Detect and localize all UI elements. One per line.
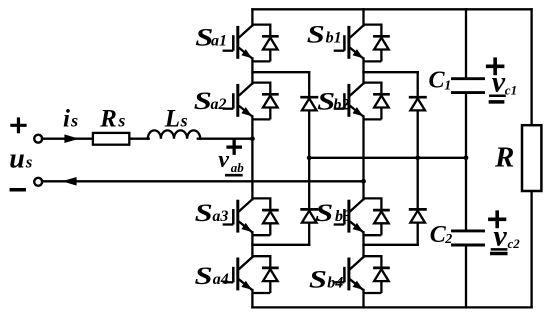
plus sign of source us: [12, 119, 25, 132]
svg-text:b4: b4: [327, 275, 343, 292]
antiparallel diode of Sa2: [252, 83, 278, 120]
label vc1: [492, 65, 517, 98]
plus sign of vc1: [488, 59, 503, 73]
current arrow is: [64, 134, 79, 143]
svg-text:b1: b1: [326, 30, 342, 47]
svg-text:S: S: [315, 199, 333, 227]
wire junction Sb1-Sb2 to clamp column: [364, 71, 418, 73]
svg-text:s: s: [25, 152, 33, 171]
label Sb1: [307, 21, 342, 49]
svg-text:c1: c1: [505, 82, 517, 97]
label Sa1: [195, 24, 227, 52]
wire phase-leg a vertical: [251, 9, 253, 307]
svg-text:v: v: [493, 220, 507, 253]
label Sb4: [309, 266, 343, 294]
svg-text:R: R: [494, 142, 514, 174]
label R load: [494, 142, 514, 174]
label C1: [429, 67, 452, 93]
wire clamp column a vertical: [308, 72, 310, 245]
label vc2: [493, 220, 520, 253]
return current arrow: [62, 177, 77, 186]
label us: [9, 143, 33, 174]
svg-text:2: 2: [444, 232, 452, 247]
antiparallel diode of Sb3: [364, 198, 390, 235]
svg-text:R: R: [99, 106, 117, 133]
antiparallel diode of Sa1: [252, 25, 278, 62]
IGBT Sb1: [334, 25, 364, 58]
wire junction Sa1-Sa2 to clamp column: [252, 71, 309, 73]
wire clamp column b vertical: [417, 72, 419, 245]
svg-text:L: L: [164, 106, 180, 133]
svg-text:a1: a1: [211, 33, 227, 50]
label Sa2: [194, 88, 227, 116]
node source - terminal: [34, 178, 42, 186]
wire upper source line: [42, 138, 253, 140]
IGBT Sa3: [223, 199, 253, 232]
resistor R (load): [522, 125, 541, 191]
underline of vc1: [490, 94, 504, 97]
antiparallel diode of Sa4: [252, 256, 278, 293]
svg-text:1: 1: [444, 78, 451, 93]
svg-text:S: S: [195, 263, 213, 291]
wire capacitor branch vertical: [465, 9, 467, 307]
antiparallel diode of Sb1: [364, 25, 390, 62]
svg-text:s: s: [70, 111, 78, 131]
plus sign of vab: [228, 141, 240, 153]
label Sa4: [195, 263, 229, 291]
label Rs: [99, 106, 125, 133]
antiparallel diode of Sb4: [364, 256, 390, 293]
svg-text:s: s: [117, 111, 125, 131]
label is: [63, 106, 78, 133]
IGBT Sa4: [223, 257, 253, 290]
svg-text:S: S: [194, 88, 212, 116]
svg-text:S: S: [195, 199, 213, 227]
clamping diode Db2 (lower clamp): [409, 209, 427, 222]
svg-text:c2: c2: [508, 236, 521, 251]
node phase b terminal: [361, 179, 366, 184]
node neutral junction at clamp b: [415, 155, 420, 160]
svg-text:ab: ab: [231, 160, 245, 175]
node neutral junction at capacitor midpoint: [464, 155, 469, 160]
node phase a terminal: [250, 136, 255, 141]
label Sb2: [317, 88, 349, 116]
IGBT Sa1: [223, 25, 253, 58]
clamping diode Da2 (lower clamp): [300, 209, 318, 222]
wire phase-leg b vertical: [362, 9, 364, 307]
capacitor C2: [453, 231, 484, 245]
svg-text:s: s: [180, 111, 188, 131]
svg-text:a2: a2: [211, 96, 227, 113]
resistor Rs: [93, 133, 129, 145]
svg-text:v: v: [492, 65, 506, 98]
label C2: [430, 222, 452, 248]
IGBT Sb3: [334, 199, 364, 232]
wire bottom DC bus: [252, 306, 531, 308]
clamping diode Db1 (upper clamp): [409, 97, 427, 110]
antiparallel diode of Sa3: [252, 198, 278, 235]
minus sign of vc1: [490, 100, 502, 104]
inductor Ls: [148, 130, 200, 138]
label Ls: [164, 106, 188, 133]
plus sign of vc2: [490, 212, 505, 226]
svg-text:a3: a3: [212, 208, 228, 225]
antiparallel diode of Sb2: [364, 83, 390, 120]
wire lower source line: [42, 180, 364, 182]
IGBT Sb4: [334, 257, 364, 290]
svg-text:v: v: [218, 147, 229, 173]
svg-text:i: i: [63, 106, 70, 133]
node source + terminal: [34, 135, 42, 143]
svg-text:u: u: [9, 143, 25, 174]
wire junction Sb3-Sb4 to clamp column: [364, 244, 418, 246]
svg-text:C: C: [429, 67, 446, 93]
underline of vc2: [492, 248, 506, 251]
IGBT Sb2: [334, 83, 364, 116]
svg-text:S: S: [307, 21, 325, 49]
clamping diode Da1 (upper clamp): [300, 97, 318, 110]
minus sign of source us: [11, 188, 24, 192]
wire load branch vertical: [530, 9, 532, 307]
label vab: [218, 147, 244, 175]
IGBT Sa2: [223, 83, 253, 116]
svg-text:S: S: [309, 266, 327, 294]
minus sign of vc2: [492, 252, 506, 256]
svg-text:a4: a4: [213, 271, 229, 288]
node neutral junction at clamp a: [307, 155, 312, 160]
capacitor C1: [453, 79, 484, 93]
label Sa3: [195, 199, 229, 227]
label Sb3: [315, 199, 351, 227]
wire neutral point line: [309, 157, 466, 159]
svg-text:b2: b2: [333, 96, 349, 113]
minus underline of vab: [226, 174, 241, 177]
wire junction Sa3-Sa4 to clamp column: [252, 244, 309, 246]
wire top DC bus: [252, 8, 531, 10]
svg-text:b3: b3: [335, 208, 351, 225]
